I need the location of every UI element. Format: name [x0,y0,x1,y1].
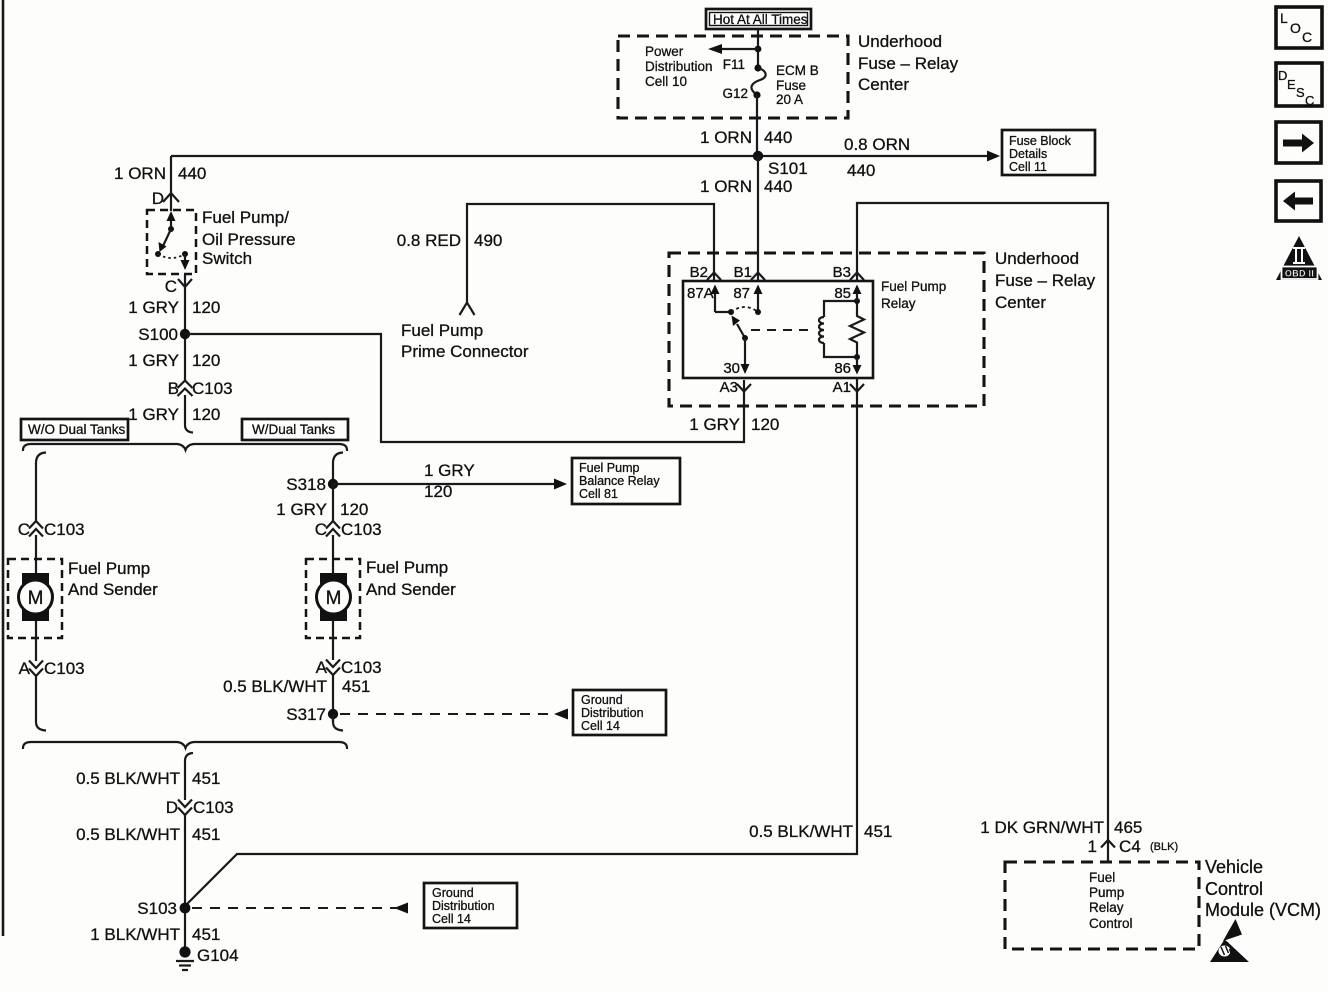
wire below left pump [35,621,37,661]
svg-text:1: 1 [1088,837,1097,856]
node Hot At All Times box [706,9,811,29]
svg-text:Cell 81: Cell 81 [579,487,618,501]
wire S318 to balance relay [333,483,557,485]
wire main feed 440 horizontal [171,155,990,157]
svg-text:451: 451 [864,822,892,841]
svg-text:120: 120 [192,351,220,370]
pin B1 connector [751,273,765,281]
connector C103 pin A (right) [316,658,382,677]
node W/Dual Tanks tag [242,419,348,440]
svg-text:Details: Details [1009,147,1047,161]
svg-text:Distribution: Distribution [581,706,644,720]
svg-text:ECM B: ECM B [776,63,819,78]
relay switch dashed throw arc [731,307,758,312]
svg-text:A1: A1 [833,379,851,396]
svg-text:Distribution: Distribution [645,59,713,74]
svg-text:C103: C103 [341,658,382,677]
relay switch blade with arrow [732,316,749,342]
svg-text:1 ORN: 1 ORN [114,164,166,183]
svg-text:440: 440 [847,161,875,180]
wire dashed S103 to ground distribution [192,907,396,909]
wire relay pin A1 down and across to S103 [186,378,857,905]
svg-text:120: 120 [340,500,368,519]
svg-text:Module (VCM): Module (VCM) [1205,900,1321,920]
icon left-arrow box [1276,181,1321,221]
connector C103 pin D (in-line) [166,798,234,817]
pin 87A arrow inside relay [687,285,720,313]
connector C103 pin C (left) [18,520,85,539]
icon OBD II triangle [1276,236,1322,280]
svg-text:D: D [1278,68,1287,83]
wire from Hot At All Times to fuse [757,29,759,68]
node Underhood Fuse-Relay Center dashed box (relay) [669,253,984,406]
node Fuse Block Details Cell 11 box [1002,130,1095,175]
pin 30 arrow inside relay [723,338,749,377]
svg-text:1 GRY: 1 GRY [276,500,327,519]
wire into right pump [332,535,334,575]
svg-text:C: C [315,520,327,539]
switch dotted throw arc [158,254,185,258]
svg-text:S103: S103 [137,899,177,918]
svg-text:S100: S100 [138,325,178,344]
svg-text:440: 440 [764,128,792,147]
svg-text:O: O [1290,20,1301,36]
switch contact arrow up [170,218,172,229]
svg-text:Cell 10: Cell 10 [645,74,687,89]
module VCM dashed box [1005,862,1199,949]
svg-text:Underhood: Underhood [858,32,942,51]
svg-text:0.8 ORN: 0.8 ORN [844,135,910,154]
wire left tank branch start hook [36,453,46,522]
svg-text:A: A [19,659,31,678]
svg-text:440: 440 [764,177,792,196]
svg-text:1 ORN: 1 ORN [700,177,752,196]
svg-text:1 GRY: 1 GRY [128,351,179,370]
svg-text:Fuse – Relay: Fuse – Relay [995,271,1096,290]
wire corner down to switch pin D [170,156,172,211]
svg-text:Vehicle: Vehicle [1205,857,1263,877]
svg-text:S: S [1296,85,1305,100]
svg-text:1 GRY: 1 GRY [424,461,475,480]
svg-text:And Sender: And Sender [366,580,456,599]
svg-text:20 A: 20 A [776,92,803,107]
wire C103 D to G104 [184,814,186,951]
svg-text:Control: Control [1089,916,1133,931]
svg-text:C: C [18,520,30,539]
svg-text:490: 490 [474,231,502,250]
svg-text:Pump: Pump [1089,885,1124,900]
svg-text:OBD II: OBD II [1285,269,1314,279]
wire below lower brace with hook [185,753,193,800]
switch blade [163,229,171,246]
node Ground Distribution Cell 14 box (lower) [424,883,517,928]
svg-text:0.8 RED: 0.8 RED [397,231,461,250]
node junction S101 [753,151,763,161]
svg-text:1 GRY: 1 GRY [128,298,179,317]
svg-text:1 GRY: 1 GRY [689,415,740,434]
ESD sensitive symbol [1210,919,1253,963]
relay coil control dashed link [751,329,812,331]
pin D connector at switch [163,193,179,202]
icon LOC box [1276,7,1322,48]
wire S318 down [332,484,334,521]
svg-text:C103: C103 [192,379,233,398]
connector C103 pin C (right) [315,520,382,539]
svg-text:Center: Center [995,293,1046,312]
wire 0.8 RED 490 to prime connector [467,204,714,302]
svg-text:Hot At All Times: Hot At All Times [713,12,808,27]
ground G104 [176,946,239,970]
node junction S318 [328,479,338,489]
pin A1 connector [850,384,864,392]
svg-text:B3: B3 [833,264,851,281]
wire to S317 [332,674,334,722]
node junction S317 [328,709,338,719]
svg-text:D: D [166,798,178,817]
svg-text:Distribution: Distribution [432,899,495,913]
wire right tank branch start hook [333,453,343,485]
svg-text:1 ORN: 1 ORN [700,128,752,147]
svg-text:Ground: Ground [432,886,474,900]
connector C103 pin A (left) [19,659,85,678]
svg-text:C103: C103 [44,659,85,678]
pin B3 connector [850,273,864,281]
svg-text:C: C [1305,93,1314,108]
svg-text:L: L [1280,10,1288,26]
svg-text:Fuse: Fuse [776,78,806,93]
node junction at F11 feed [755,46,762,53]
label Vehicle Control Module (VCM) [1205,857,1321,920]
pin 87 arrow inside relay [733,285,762,313]
svg-text:451: 451 [192,925,220,944]
relay resistor [850,301,864,357]
svg-text:87: 87 [733,285,750,302]
svg-text:S318: S318 [286,475,326,494]
motor right fuel pump (dashed box) [306,559,360,638]
page border left edge [2,0,5,936]
svg-text:G104: G104 [197,946,239,965]
connector Fuel Pump Prime (open end) [460,303,475,316]
svg-text:B: B [168,379,179,398]
svg-text:C4: C4 [1119,837,1141,856]
svg-text:Fuel Pump: Fuel Pump [68,559,150,578]
svg-text:120: 120 [751,415,779,434]
svg-text:Underhood: Underhood [995,249,1079,268]
svg-text:C103: C103 [193,798,234,817]
node Ground Distribution Cell 14 box (upper) [573,690,666,735]
icon DESC box [1276,63,1322,108]
wire below C103 B [185,395,193,433]
svg-text:(BLK): (BLK) [1150,841,1178,853]
svg-text:Cell 14: Cell 14 [581,719,620,733]
motor left fuel pump (dashed box) [8,559,62,638]
wire dashed S317 to ground distribution [340,713,556,715]
wire left branch to lower brace with hook [36,675,46,731]
node Fuel Pump Balance Relay Cell 81 box [572,458,680,504]
svg-text:S101: S101 [768,159,808,178]
relay Fuel Pump Relay box [683,281,873,378]
svg-text:W/O Dual Tanks: W/O Dual Tanks [28,422,126,437]
svg-text:Fuse Block: Fuse Block [1009,134,1072,148]
svg-text:Fuel Pump: Fuel Pump [881,279,946,294]
svg-text:Control: Control [1205,879,1263,899]
svg-text:B2: B2 [690,264,708,281]
svg-text:F11: F11 [723,57,745,72]
svg-text:Balance Relay: Balance Relay [579,474,660,488]
wire S101 down to relay pin B1 [757,156,759,282]
svg-text:M: M [326,588,342,609]
svg-text:120: 120 [192,298,220,317]
svg-text:B1: B1 [734,264,752,281]
svg-text:0.5 BLK/WHT: 0.5 BLK/WHT [76,769,180,788]
fuse F11/G12 ECM B 20A [722,57,818,107]
svg-text:465: 465 [1114,818,1142,837]
pin A3 connector [737,384,751,392]
svg-text:Fuel Pump: Fuel Pump [366,558,448,577]
svg-text:451: 451 [192,769,220,788]
svg-text:1 DK GRN/WHT: 1 DK GRN/WHT [980,818,1104,837]
svg-text:C: C [165,277,177,296]
wire S100 branch to relay pin 30 [185,334,744,442]
pin C4 connector at VCM [1101,840,1115,848]
svg-text:And Sender: And Sender [68,580,158,599]
label Underhood Fuse-Relay Center (top) [858,32,959,94]
svg-text:Fuel Pump: Fuel Pump [579,461,639,475]
svg-text:Fuel Pump: Fuel Pump [401,321,483,340]
icon right-arrow box [1276,122,1321,163]
svg-text:M: M [28,588,44,609]
node Power Distribution Cell 10 dashed box (Underhood Fuse-Relay Center) [618,36,848,118]
svg-text:86: 86 [834,360,851,377]
wire arrow to power distribution [719,48,758,50]
svg-text:0.5 BLK/WHT: 0.5 BLK/WHT [223,677,327,696]
svg-text:Power: Power [645,44,684,59]
svg-text:Switch: Switch [202,249,252,268]
svg-text:E: E [1287,77,1296,92]
pin C connector below switch [178,279,192,287]
svg-text:Relay: Relay [881,296,916,311]
svg-text:D: D [152,189,164,208]
svg-text:451: 451 [192,825,220,844]
wire right branch end hook [333,714,343,731]
svg-text:Fuel: Fuel [1089,870,1115,885]
wire brace lower (tank options join) [23,742,347,749]
svg-text:85: 85 [834,285,851,302]
switch contact arrow down [184,254,186,262]
wire into left pump [35,535,37,575]
wire below right pump [332,621,334,660]
svg-text:Center: Center [858,75,909,94]
svg-text:Prime Connector: Prime Connector [401,342,529,361]
relay switch common wire 87A to pivot [715,311,731,313]
svg-text:440: 440 [178,164,206,183]
node junction S100 [180,329,190,339]
switch Fuel Pump / Oil Pressure (dashed box) [147,210,196,274]
svg-text:1 GRY: 1 GRY [128,405,179,424]
svg-text:Fuse – Relay: Fuse – Relay [858,54,959,73]
svg-text:Cell 11: Cell 11 [1009,160,1047,174]
svg-text:Ground: Ground [581,693,623,707]
svg-text:Oil Pressure: Oil Pressure [202,230,296,249]
label Fuel Pump / Oil Pressure Switch [202,208,296,268]
svg-text:0.5 BLK/WHT: 0.5 BLK/WHT [749,822,853,841]
svg-text:A3: A3 [720,379,738,396]
svg-text:Cell 14: Cell 14 [432,912,471,926]
svg-text:1 BLK/WHT: 1 BLK/WHT [90,925,180,944]
node W/O Dual Tanks tag [21,419,128,440]
svg-text:W/Dual Tanks: W/Dual Tanks [252,422,335,437]
pin 85 arrow inside relay [834,285,861,303]
svg-text:C103: C103 [341,520,382,539]
pin 86 arrow inside relay [834,357,861,377]
svg-text:C: C [1302,29,1312,45]
svg-text:G12: G12 [722,86,748,101]
svg-text:A: A [316,658,328,677]
svg-text:S317: S317 [286,705,326,724]
svg-text:Fuel Pump/: Fuel Pump/ [202,208,289,227]
svg-text:Relay: Relay [1089,900,1124,915]
svg-text:0.5 BLK/WHT: 0.5 BLK/WHT [76,825,180,844]
svg-text:87A: 87A [687,285,714,302]
svg-text:120: 120 [424,482,452,501]
connector C103 pin B (in-line) [168,379,233,398]
wire brace upper (tank options split) [23,444,347,451]
node junction S103 [180,903,191,914]
wire fuse to S101 [756,95,758,155]
svg-text:451: 451 [342,677,370,696]
svg-text:120: 120 [192,405,220,424]
svg-text:C103: C103 [44,520,85,539]
pin B2 connector [707,273,721,281]
relay coil [819,301,857,357]
wire switch to S100 and down [184,274,186,381]
svg-text:30: 30 [723,360,740,377]
wire relay pin B3 up and over to VCM [857,203,1108,862]
